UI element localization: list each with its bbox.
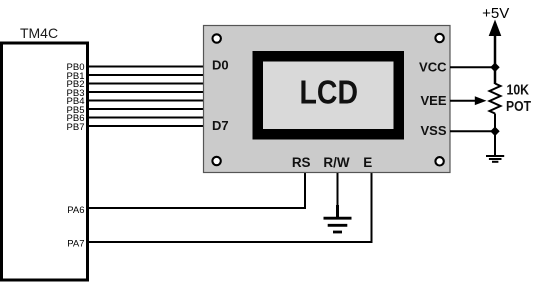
junction node VCC / pot top [490,63,499,73]
svg-text:R/W: R/W [323,155,350,170]
svg-text:VCC: VCC [419,60,447,75]
ground symbol at pot [486,156,504,162]
mounting hole bottom-left [212,157,220,165]
mounting hole top-left [213,34,221,42]
wire PB4 [87,100,204,102]
pot wiper arrowhead [475,96,487,105]
wire PB2 [87,83,204,85]
svg-text:LCD: LCD [300,74,359,111]
wire VEE to pot wiper [450,100,476,102]
svg-text:VEE: VEE [420,93,446,108]
microcontroller U1 TM4C box [2,43,88,280]
wire VCC to +5V rail [450,66,495,68]
svg-text:POT: POT [506,99,531,115]
wire R/W to ground [337,173,339,218]
svg-text:E: E [363,155,372,170]
LCD module body [204,26,451,173]
svg-text:RS: RS [292,155,311,170]
wire PA6 to RS [87,173,305,208]
+5V stem wire [494,33,497,84]
wire PB6 [87,117,204,119]
svg-text:D7: D7 [212,118,229,133]
wire PB3 [87,91,204,93]
svg-text:TM4C: TM4C [20,25,58,41]
wire pot bottom to junction [494,114,496,133]
junction node VSS / pot bottom [490,127,499,137]
svg-text:+5V: +5V [482,5,509,22]
mounting hole bottom-right [435,157,443,165]
svg-text:10K: 10K [507,82,530,98]
+5V supply arrow [489,20,502,37]
wire PA7 to E [87,173,372,242]
LCD screen bezel [258,56,399,134]
svg-text:PA7: PA7 [67,239,84,250]
svg-text:PB7: PB7 [67,122,85,133]
ground symbol at R/W [324,218,352,232]
wire junction to ground [494,131,496,155]
svg-text:D0: D0 [212,58,229,73]
wire PB1 [87,74,204,76]
svg-text:PA6: PA6 [67,205,84,216]
wire PB0 to D0 [87,66,204,68]
potentiometer R1 zigzag [490,84,501,114]
wire PB7 to D7 [87,125,204,127]
mounting hole top-right [435,34,443,42]
svg-text:VSS: VSS [420,123,446,138]
wire VSS to ground rail [450,130,495,132]
wire PB5 [87,108,204,110]
